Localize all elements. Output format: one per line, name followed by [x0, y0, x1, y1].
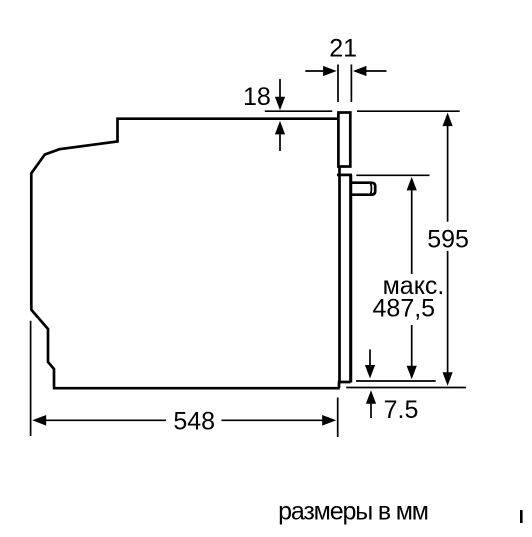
- svg-text:595: 595: [427, 226, 469, 254]
- svg-text:размеры в мм: размеры в мм: [278, 498, 428, 526]
- svg-text:18: 18: [243, 83, 271, 111]
- svg-text:7.5: 7.5: [384, 396, 419, 424]
- svg-text:21: 21: [329, 34, 357, 62]
- svg-text:548: 548: [173, 408, 215, 436]
- svg-text:487,5: 487,5: [373, 294, 436, 322]
